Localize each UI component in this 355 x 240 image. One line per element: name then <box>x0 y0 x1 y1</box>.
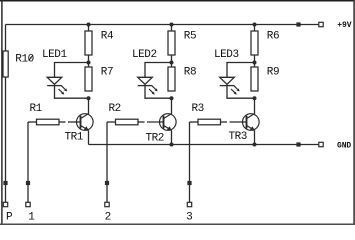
node R6 top rail <box>253 23 257 27</box>
svg-text:R3: R3 <box>192 103 204 115</box>
junction square pin 2 <box>105 181 109 185</box>
svg-text:TR3: TR3 <box>229 131 247 143</box>
LED LED1 <box>47 77 67 94</box>
svg-text:R9: R9 <box>267 67 279 79</box>
wire TR2 emitter <box>171 130 173 144</box>
transistor TR2 <box>160 114 177 132</box>
node LED1 anode junction <box>87 61 91 65</box>
resistor R5 <box>168 31 175 55</box>
svg-text:TR1: TR1 <box>65 131 84 143</box>
wire LED1 anode <box>55 63 89 78</box>
node TR3 emitter on GND rail <box>253 143 257 147</box>
resistor R7 <box>85 67 92 91</box>
junction square +9V rail <box>296 22 300 26</box>
svg-text:P: P <box>6 212 13 224</box>
wire LED3 anode <box>227 63 255 78</box>
wire LED3 cathode <box>227 86 255 99</box>
node TR2 emitter on GND rail <box>170 143 174 147</box>
resistor R4 <box>85 31 92 55</box>
wire pin 1 down <box>27 122 29 205</box>
wire R2 to TR2 base <box>138 121 145 123</box>
svg-text:LED3: LED3 <box>214 49 239 61</box>
svg-text:R1: R1 <box>30 103 43 115</box>
transistor TR1 <box>77 114 94 132</box>
svg-text:1: 1 <box>28 212 35 224</box>
wire LED2 anode <box>145 63 172 78</box>
wire R5 to R8 <box>171 55 173 68</box>
wire TR3 collector <box>254 98 256 114</box>
resistor R6 <box>251 31 258 55</box>
wire TR2 collector <box>171 98 173 114</box>
LED LED3 <box>220 77 240 94</box>
svg-text:2: 2 <box>105 212 111 224</box>
svg-text:R6: R6 <box>267 30 279 42</box>
node LED3 anode junction <box>253 61 257 65</box>
junction square pin P <box>3 181 7 185</box>
resistor R2 <box>116 119 139 125</box>
junction square pin 3 <box>187 181 191 185</box>
connector pin GND <box>319 142 323 146</box>
svg-text:R4: R4 <box>101 30 114 42</box>
node R4 top rail <box>87 23 91 27</box>
node LED2 anode junction <box>170 61 174 65</box>
wire pin 3 to R3 <box>190 121 199 123</box>
node R8 bottom junction <box>170 96 174 100</box>
connector pin 2 <box>105 202 109 206</box>
resistor R3 <box>198 119 221 125</box>
node R9 bottom junction <box>253 96 257 100</box>
svg-text:R8: R8 <box>184 67 196 79</box>
resistor R9 <box>251 67 258 91</box>
LED LED2 <box>138 77 158 94</box>
wire R3 to TR3 base <box>221 121 228 123</box>
wire R10 top <box>5 25 7 52</box>
resistor R10 <box>3 51 8 77</box>
svg-text:R10: R10 <box>15 53 33 65</box>
wire GND rail <box>89 144 322 146</box>
connector pin 1 <box>26 202 30 206</box>
transistor TR3 <box>243 114 260 132</box>
wire LED2 cathode <box>145 86 172 99</box>
wire rail to R4 <box>88 25 90 32</box>
wire rail to R5 <box>171 25 173 32</box>
wire pin 1 to R1 <box>28 121 37 123</box>
wire pin 2 to R2 <box>107 121 116 123</box>
resistor R8 <box>168 67 175 91</box>
wire LED1 cathode <box>55 86 89 99</box>
wire R1 to TR1 base <box>59 121 66 123</box>
wire rail to R6 <box>254 25 256 32</box>
wire pin 3 down <box>189 122 191 205</box>
wire TR3 emitter <box>254 130 256 144</box>
svg-text:LED2: LED2 <box>132 49 157 61</box>
connector pin +9V <box>319 22 323 26</box>
wire TR1 collector <box>88 98 90 114</box>
svg-text:GND: GND <box>337 142 351 151</box>
svg-text:+9V: +9V <box>337 21 351 30</box>
wire pin 2 down <box>106 122 108 205</box>
connector pin P <box>3 202 7 206</box>
svg-text:LED1: LED1 <box>42 49 67 61</box>
svg-text:R5: R5 <box>184 30 196 42</box>
svg-text:3: 3 <box>186 212 192 224</box>
svg-text:R7: R7 <box>101 67 113 79</box>
wire R6 to R9 <box>254 55 256 68</box>
node R5 top rail <box>170 23 174 27</box>
connector pin 3 <box>187 202 191 206</box>
wire R10 to pin P <box>5 77 7 205</box>
resistor R1 <box>37 119 60 125</box>
svg-text:TR2: TR2 <box>146 132 164 144</box>
node R7 bottom junction <box>87 96 91 100</box>
wire R4 to R7 <box>88 55 90 68</box>
wire TR1 emitter <box>88 130 90 144</box>
junction square GND rail <box>296 142 300 146</box>
svg-text:R2: R2 <box>109 103 121 115</box>
junction square pin 1 <box>26 181 30 185</box>
wire +9V rail <box>6 24 322 26</box>
